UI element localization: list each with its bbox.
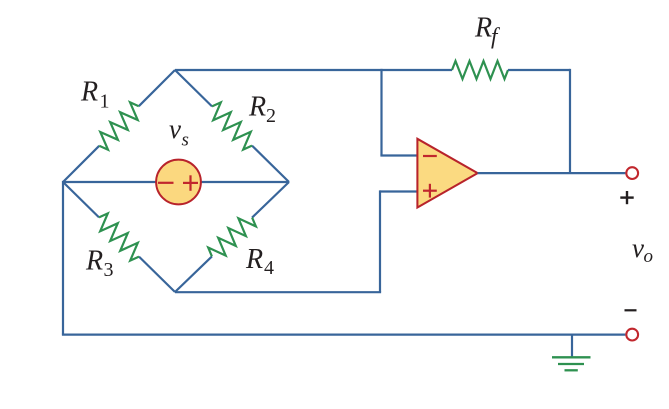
wire: bottom rail [62, 334, 626, 336]
label R3 [85, 246, 114, 282]
wire: bridge bottom-right edge lower segment (bottom node to R4) [175, 256, 212, 292]
wire: bridge top-right edge upper segment (top node to R2) [175, 70, 212, 106]
svg-text:R: R [248, 92, 266, 123]
wire: op-amp output to terminal [478, 172, 626, 174]
wire: bridge bottom-left edge lower segment (R3 to bottom node) [139, 257, 175, 292]
wire: left vertical (left vertex down to bottom rail) [62, 181, 64, 335]
op-amp inverting pin minus sign [423, 155, 437, 157]
resistor R2 [212, 102, 252, 149]
svg-text:2: 2 [266, 105, 276, 127]
wire: inverting input vertical from top rail [380, 69, 382, 156]
terminal: output negative circle [626, 329, 638, 341]
wire: noninverting input horizontal into op-amp [380, 190, 418, 192]
ground stem [571, 335, 573, 357]
resistor R4 [208, 218, 256, 257]
op-amp U1 triangle [417, 139, 477, 208]
wire: top rail right segment (Rf to right corner) [508, 69, 570, 71]
svg-text:s: s [182, 130, 189, 151]
svg-text:f: f [491, 24, 501, 49]
svg-text:3: 3 [104, 259, 114, 281]
label vo [632, 233, 653, 267]
wire: bridge top-right edge lower segment (R2 to right vertex) [252, 146, 289, 182]
svg-text:1: 1 [100, 91, 110, 113]
label R4 [245, 244, 274, 279]
voltage source vs circle [156, 160, 201, 205]
wire: feedback right vertical (top rail down to output) [569, 69, 571, 173]
label R1 [80, 77, 110, 113]
svg-text:4: 4 [264, 257, 274, 279]
resistor R1 [99, 102, 139, 149]
op-amp noninverting pin plus sign [423, 184, 437, 198]
svg-text:R: R [474, 13, 492, 44]
wire: inverting input horizontal into op-amp [380, 154, 418, 156]
svg-text:o: o [644, 246, 654, 267]
label R2 [248, 92, 276, 128]
wire: noninverting input vertical down to bottom bridge node wire [379, 190, 381, 292]
wire: bridge bottom-left edge upper segment (left vertex to R3) [63, 182, 99, 217]
svg-text:v: v [632, 233, 644, 263]
wire: top rail left segment (top node to Rf) [175, 69, 452, 71]
voltage source minus sign [158, 182, 174, 184]
resistor Rf [452, 61, 508, 79]
label Rf [474, 13, 501, 49]
terminal: output positive circle [626, 167, 638, 179]
svg-text:v: v [169, 114, 181, 144]
wire: bridge top-left edge upper segment (R1 to top node) [139, 70, 175, 106]
wire: bridge bottom-right edge upper segment (R4 to right vertex) [252, 182, 289, 218]
label + (output polarity) [620, 191, 633, 204]
ground bar 1 [552, 356, 591, 358]
svg-text:R: R [85, 246, 103, 277]
wire: bridge top-left edge lower segment (left vertex to R1) [63, 146, 99, 182]
ground bar 3 [565, 369, 578, 371]
ground bar 2 [558, 363, 584, 365]
wire: bridge center horizontal (left vertex to right vertex through source) [63, 181, 289, 183]
label vs [169, 114, 189, 151]
voltage source plus sign [183, 175, 198, 191]
resistor R3 [99, 213, 139, 260]
svg-text:R: R [245, 244, 263, 275]
label minus (output polarity) [625, 309, 637, 311]
wire: bottom bridge node horizontal (bottom vertex to noninverting branch) [175, 291, 381, 293]
svg-text:R: R [80, 77, 98, 108]
